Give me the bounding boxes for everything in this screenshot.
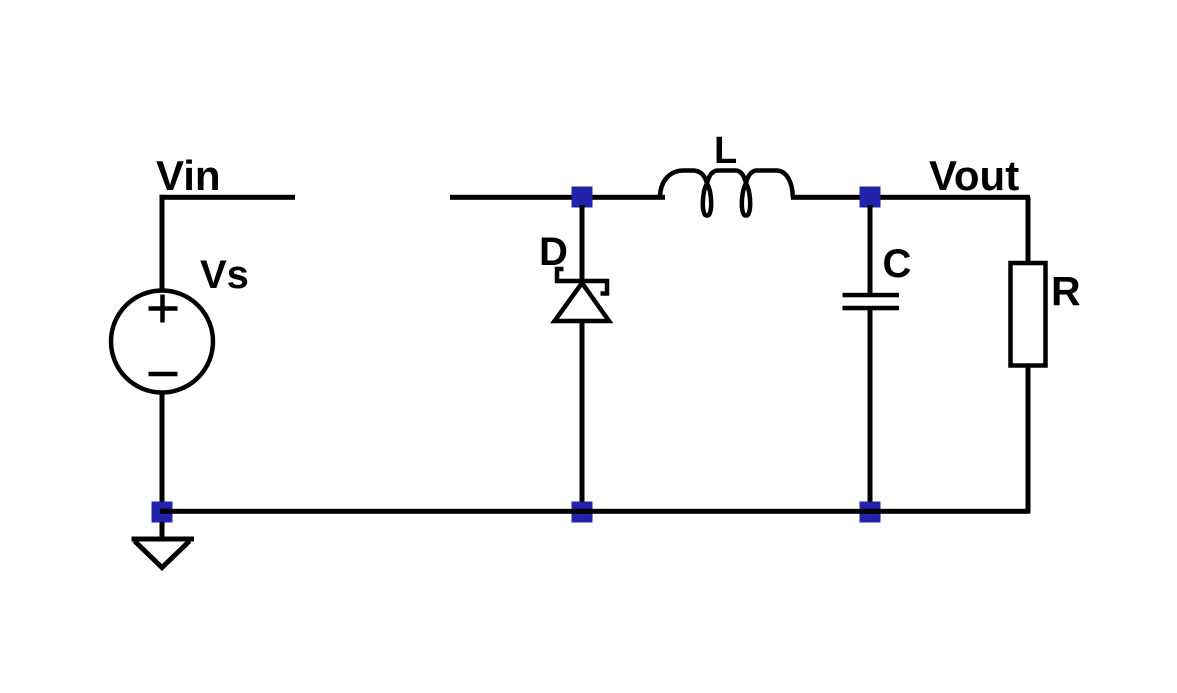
- node B output junction (blue): [860, 187, 881, 208]
- wire diode anode down to bottom rail: [580, 321, 585, 504]
- svg-text:R: R: [1051, 268, 1081, 314]
- wire right vertical from Vout corner to resistor top: [1026, 197, 1031, 263]
- capacitor C top plate: [843, 293, 900, 298]
- svg-text:L: L: [714, 130, 737, 172]
- wire inductor to output node: [791, 195, 1030, 200]
- svg-text:Vs: Vs: [200, 253, 249, 297]
- node A switch-node junction (blue): [572, 187, 593, 208]
- ground symbol: [132, 539, 195, 568]
- wire stub from node to ground symbol: [160, 522, 165, 539]
- wire node B down to capacitor top plate: [868, 205, 873, 293]
- wire resistor bottom to rail: [1026, 365, 1031, 513]
- plus sign of Vs: [149, 295, 178, 323]
- svg-text:Vin: Vin: [156, 152, 221, 199]
- node junction bottom-right under C (blue): [860, 502, 881, 523]
- diode D anode triangle: [555, 283, 610, 321]
- node junction bottom-left (blue): [152, 502, 173, 523]
- svg-text:D: D: [539, 230, 568, 274]
- voltage source Vs circle: [111, 291, 213, 393]
- wire top after gap to node A: [450, 195, 665, 200]
- svg-text:C: C: [883, 242, 912, 286]
- wire from source bottom to ground node: [160, 392, 165, 504]
- svg-text:Vout: Vout: [929, 152, 1019, 199]
- inductor L: [660, 171, 793, 216]
- capacitor C bottom plate: [843, 306, 900, 311]
- wire capacitor bottom to rail: [868, 310, 873, 504]
- node junction bottom-middle (blue): [572, 502, 593, 523]
- wire Vin top-left horizontal: [160, 195, 295, 200]
- wire node A down to diode cathode: [580, 205, 585, 283]
- resistor R body: [1011, 263, 1046, 366]
- bottom ground rail wire: [160, 509, 1030, 514]
- minus sign of Vs: [149, 372, 178, 377]
- wire left vertical from Vin corner to source top: [160, 195, 165, 290]
- diode D (Schottky) cathode bar with hooks: [557, 269, 607, 294]
